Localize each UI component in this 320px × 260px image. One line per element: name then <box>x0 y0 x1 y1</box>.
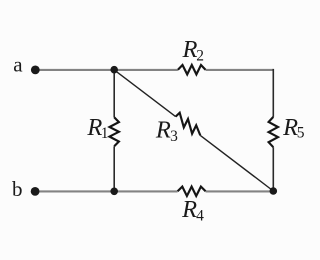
resistor R3 (diagonal) <box>176 113 201 136</box>
wire: R3 lower lead to bottom-right junction (diagonal) <box>200 135 273 191</box>
svg-text:5: 5 <box>297 125 305 142</box>
wire: R5 bottom lead to bottom-right junction <box>272 147 274 191</box>
wire: top-right corner down to R5 top lead <box>272 69 274 117</box>
svg-text:a: a <box>13 53 23 77</box>
wire: top junction to R2 left lead <box>114 69 178 71</box>
resistor R2 <box>178 65 206 74</box>
resistor R4 <box>178 187 206 196</box>
resistor R1 <box>110 117 119 146</box>
wire: terminal a to top junction <box>35 69 114 71</box>
resistor R5 <box>269 117 278 147</box>
svg-text:R: R <box>181 196 197 223</box>
wire: terminal b to bottom junction <box>35 190 114 192</box>
junction: bottom (b-R1-R4) <box>110 188 118 196</box>
svg-text:3: 3 <box>170 128 178 145</box>
svg-text:R: R <box>182 36 198 63</box>
node a terminal dot <box>31 66 40 75</box>
wire: top junction down to R1 top lead <box>113 70 115 118</box>
svg-text:R: R <box>155 116 171 143</box>
wire: R2 right lead to top-right corner <box>206 69 274 71</box>
wire: top junction to R3 upper lead (diagonal) <box>114 70 175 117</box>
node b terminal dot <box>31 187 40 196</box>
wire: R1 bottom lead to bottom junction <box>113 146 115 191</box>
svg-text:R: R <box>282 114 298 141</box>
svg-text:1: 1 <box>101 125 109 142</box>
svg-text:2: 2 <box>196 47 204 64</box>
svg-text:4: 4 <box>196 208 204 225</box>
wire: R4 right lead to bottom-right junction <box>206 190 274 192</box>
wire: bottom junction to R4 left lead <box>114 190 177 192</box>
junction: top (a-R1-R2-R3) <box>110 66 118 74</box>
junction: bottom-right (R3-R4-R5) <box>270 187 278 195</box>
svg-text:b: b <box>12 177 23 201</box>
